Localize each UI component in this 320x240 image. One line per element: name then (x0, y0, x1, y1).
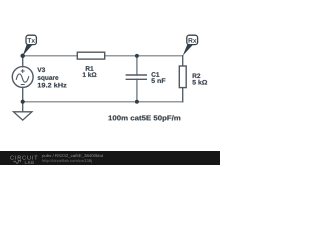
flag Tx text (27, 38, 35, 43)
watermark text line 2 (42, 159, 91, 163)
label C1 (151, 72, 159, 77)
label R2 (193, 73, 201, 78)
label V3 value: square (38, 76, 59, 81)
ground (14, 102, 32, 120)
V3 minus sign (21, 84, 25, 86)
node dot ground junction (21, 100, 25, 104)
label C1 value: 5 nF (151, 78, 165, 83)
watermark logo CIRCUIT (10, 156, 37, 160)
wire C1 upper stub (136, 56, 138, 75)
annotation: 100m cat5E 50pF/m (108, 115, 180, 122)
wire top left: node Tx to R1 (23, 55, 78, 57)
node dot C1 bottom (135, 100, 139, 104)
watermark bar (0, 151, 220, 165)
wire C1 lower stub (136, 79, 138, 101)
resistor R1 (77, 52, 104, 59)
resistor R2 (179, 66, 186, 88)
wire R2 lower stub (182, 88, 184, 102)
label V3 (37, 67, 45, 72)
flag Rx pointer (183, 45, 193, 56)
label V3 freq: 19.2 kHz (38, 83, 67, 88)
V3 waveform (16, 74, 29, 82)
flag Rx text (189, 38, 197, 43)
watermark logo LAB (25, 161, 34, 164)
wire left column lower: V3 bottom to bottom rail (22, 87, 24, 101)
watermark text line 1 (42, 154, 102, 158)
node dot Tx (20, 54, 25, 59)
voltage source V3 (12, 67, 33, 88)
wire top right: R1 to node Rx (105, 55, 183, 57)
wire bottom rail (23, 101, 183, 103)
label R1 (86, 66, 94, 70)
V3 plus sign (21, 69, 25, 73)
label R1 value: 1 kOhm (83, 72, 97, 77)
label R2 value: 5 kOhm (192, 80, 207, 85)
flag Tx pointer (23, 44, 33, 56)
watermark logo squiggle (14, 161, 21, 164)
capacitor C1 (126, 75, 147, 79)
flag Tx box (26, 35, 36, 44)
wire left column upper: node Tx to V3 top (22, 56, 24, 67)
wire R2 upper stub (182, 56, 184, 66)
flag Rx box (187, 35, 198, 44)
node dot C1 top (135, 54, 139, 58)
